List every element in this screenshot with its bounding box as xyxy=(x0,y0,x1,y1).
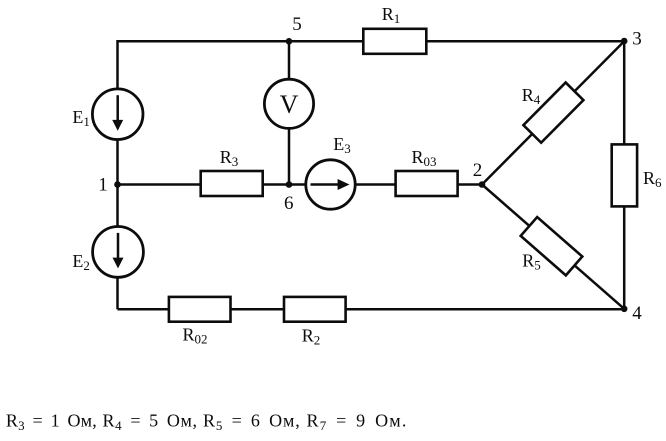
resistor R1 xyxy=(363,4,426,54)
source E1 xyxy=(72,89,143,140)
node 6 xyxy=(284,181,294,214)
resistor R3 xyxy=(201,147,263,196)
svg-text:4: 4 xyxy=(632,303,642,324)
svg-text:V: V xyxy=(280,90,299,119)
resistor R2 xyxy=(284,297,346,348)
wire diagonal node 2 to node 3 xyxy=(482,41,624,184)
source E3 xyxy=(306,134,355,209)
node 4 xyxy=(621,303,642,324)
wire top rail left (corner to R1) xyxy=(118,41,364,184)
wire left rail lower (node 1 to bottom corner) xyxy=(116,185,119,310)
resistor R02 xyxy=(169,297,231,347)
wire right rail (node 3 to node 4) xyxy=(623,41,626,309)
source E2 xyxy=(72,227,143,278)
svg-text:3: 3 xyxy=(632,29,642,50)
node 3 xyxy=(621,29,642,50)
svg-text:5: 5 xyxy=(292,14,302,35)
wire top rail right (R1 to node 3) xyxy=(426,40,624,43)
svg-text:1: 1 xyxy=(98,175,108,196)
node 2 xyxy=(473,160,486,188)
resistor R4 xyxy=(523,83,583,143)
wire V branch (node 5 to node 6) xyxy=(288,41,291,184)
resistor R03 xyxy=(396,147,458,196)
voltmeter V xyxy=(264,79,313,128)
node 1 xyxy=(98,175,121,196)
node 5 xyxy=(286,14,302,45)
resistor R5 xyxy=(521,217,583,275)
svg-text:2: 2 xyxy=(473,160,483,181)
svg-text:6: 6 xyxy=(284,193,294,214)
wire mid rail (node 1 to node 2) xyxy=(118,183,483,186)
svg-text:R3 = 1 Ом, R4 = 5 Ом,: R3 = 1 Ом, R4 = 5 Ом, R5 = 6 Ом, R7 = 9 … xyxy=(6,411,408,433)
wire bottom rail (corner to node 4) xyxy=(118,308,625,311)
resistor R6 xyxy=(612,144,662,206)
wire diagonal node 2 to node 4 xyxy=(482,185,624,309)
